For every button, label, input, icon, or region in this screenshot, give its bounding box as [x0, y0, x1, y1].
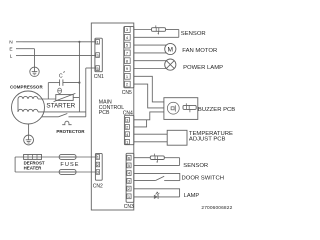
svg-text:E: E — [9, 46, 12, 52]
svg-text:SENSOR: SENSOR — [181, 31, 206, 37]
svg-text:BUZZER PCB: BUZZER PCB — [198, 107, 235, 113]
svg-text:ADJUST PCB: ADJUST PCB — [189, 137, 226, 143]
svg-text:STARTER: STARTER — [46, 102, 75, 109]
svg-text:L: L — [10, 53, 13, 59]
svg-text:CN3: CN3 — [124, 204, 134, 210]
svg-text:N: N — [9, 39, 13, 45]
svg-text:C: C — [59, 73, 63, 79]
svg-text:FUSE: FUSE — [60, 162, 79, 168]
svg-text:FAN MOTOR: FAN MOTOR — [182, 48, 217, 54]
svg-text:PROTECTOR: PROTECTOR — [56, 129, 85, 134]
svg-text:COMPRESSOR: COMPRESSOR — [10, 85, 43, 90]
svg-text:CN1: CN1 — [94, 74, 104, 80]
svg-text:PCB: PCB — [99, 110, 110, 116]
svg-text:CN2: CN2 — [93, 183, 103, 189]
svg-text:27006006822: 27006006822 — [201, 205, 232, 211]
svg-text:HEATER: HEATER — [24, 165, 43, 170]
svg-text:LAMP: LAMP — [184, 193, 200, 199]
svg-text:CN5: CN5 — [122, 90, 132, 96]
svg-text:DOOR SWITCH: DOOR SWITCH — [182, 176, 225, 182]
svg-text:POWER LAMP: POWER LAMP — [183, 65, 223, 71]
svg-text:M: M — [168, 46, 174, 53]
svg-text:SENSOR: SENSOR — [183, 163, 208, 169]
